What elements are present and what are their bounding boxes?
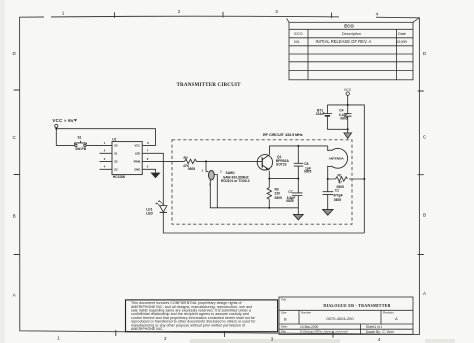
svg-text:PWM: PWM: [134, 160, 141, 164]
svg-text:LED: LED: [146, 212, 153, 216]
svg-text:2: 2: [164, 336, 167, 341]
svg-text:B: B: [284, 317, 287, 322]
svg-text:RO2101 or TO39-3: RO2101 or TO39-3: [221, 179, 250, 183]
svg-text:0805: 0805: [188, 167, 196, 171]
svg-text:C. Voon: C. Voon: [383, 330, 395, 334]
svg-text:23A/T: 23A/T: [316, 112, 325, 116]
svg-text:R2: R2: [184, 156, 188, 160]
svg-text:Sheet1 of 1: Sheet1 of 1: [366, 325, 383, 329]
svg-text:File:: File:: [281, 330, 287, 334]
svg-text:2: 2: [178, 9, 181, 14]
svg-text:U1: U1: [112, 138, 116, 142]
svg-text:RF CIRCUIT 433.9 MHz: RF CIRCUIT 433.9 MHz: [263, 133, 303, 137]
svg-text:Number: Number: [301, 310, 311, 314]
svg-text:0805: 0805: [304, 170, 312, 174]
svg-text:3/10/99: 3/10/99: [396, 40, 407, 44]
svg-text:470pF: 470pF: [333, 194, 343, 198]
svg-text:GND: GND: [134, 168, 140, 172]
svg-text:10-Mar-2000: 10-Mar-2000: [300, 325, 318, 329]
svg-text:0805: 0805: [334, 198, 342, 202]
svg-text:ECO: ECO: [294, 32, 302, 36]
svg-text:Description: Description: [342, 32, 361, 36]
svg-text:B: B: [13, 214, 16, 219]
svg-text:4: 4: [378, 337, 381, 342]
svg-text:LED: LED: [135, 152, 140, 156]
svg-text:C1: C1: [335, 189, 339, 193]
svg-text:S1: S1: [77, 135, 81, 139]
svg-text:4: 4: [376, 12, 379, 17]
svg-text:SW-PB: SW-PB: [75, 147, 87, 151]
svg-text:Size: Size: [281, 310, 287, 314]
svg-text:D:\Dialogue ER\er_transmit_mec: D:\Dialogue ER\er_transmit_mech.sch: [300, 330, 348, 334]
svg-text:0805: 0805: [337, 185, 345, 189]
svg-text:Drawn By:: Drawn By:: [366, 330, 381, 334]
svg-text:0805: 0805: [340, 117, 348, 121]
svg-text:Revision: Revision: [383, 310, 394, 314]
svg-text:AMERIPHONE INC.: AMERIPHONE INC.: [131, 327, 164, 331]
svg-text:C7: C7: [288, 190, 292, 194]
svg-text:3: 3: [271, 337, 274, 342]
svg-text:001: 001: [294, 40, 300, 44]
svg-text:1: 1: [57, 336, 60, 341]
svg-text:B: B: [423, 213, 426, 218]
svg-text:A: A: [395, 316, 398, 321]
svg-text:ECO: ECO: [344, 24, 354, 29]
svg-text:C4: C4: [339, 109, 343, 113]
svg-text:SOT23: SOT23: [276, 162, 287, 166]
svg-text:S1: S1: [114, 152, 118, 156]
svg-text:47: 47: [338, 181, 342, 185]
svg-text:S0: S0: [114, 144, 118, 148]
svg-text:0805: 0805: [275, 196, 283, 200]
svg-text:Title: Title: [281, 298, 287, 302]
svg-text:INITIAL RELEASE OF REV. A: INITIAL RELEASE OF REV. A: [316, 39, 372, 44]
svg-text:R1: R1: [338, 174, 342, 178]
svg-text:S3: S3: [114, 168, 118, 172]
svg-text:VCC: VCC: [344, 88, 352, 92]
svg-text:0070-4024-200: 0070-4024-200: [326, 316, 354, 321]
svg-text:ANTENNA: ANTENNA: [329, 157, 345, 161]
svg-text:TRANSMITTER CIRCUIT: TRANSMITTER CIRCUIT: [177, 82, 242, 88]
svg-text:Date:: Date:: [281, 325, 288, 329]
svg-text:S2: S2: [114, 160, 118, 164]
svg-text:Date: Date: [398, 32, 406, 36]
svg-text:3: 3: [275, 9, 278, 14]
svg-text:HCS300: HCS300: [113, 175, 126, 179]
svg-text:1: 1: [62, 10, 65, 15]
svg-text:DIALOGUE ER - TRANSMITTER: DIALOGUE ER - TRANSMITTER: [323, 303, 390, 308]
svg-text:0805: 0805: [286, 199, 294, 203]
svg-text:VCC: VCC: [135, 144, 141, 148]
svg-text:VCC ≈ 6v: VCC ≈ 6v: [53, 118, 74, 123]
